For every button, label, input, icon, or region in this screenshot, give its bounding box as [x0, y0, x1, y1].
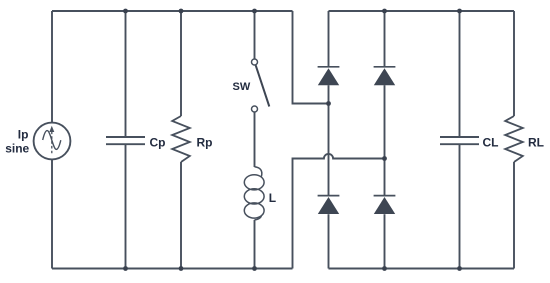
wire CL column bottom	[459, 145, 461, 269]
diode D3 (bridge bottom-left)	[318, 196, 340, 214]
node Cp top	[123, 9, 128, 14]
svg-text:Rp: Rp	[197, 136, 213, 150]
diode D4 (bridge bottom-right)	[374, 196, 396, 214]
current source sine wave	[43, 131, 61, 150]
switch SW blade	[256, 65, 270, 106]
wire CL column top	[459, 11, 461, 136]
resistor RL zigzag	[505, 116, 523, 162]
svg-text:L: L	[269, 191, 276, 205]
wire AC input 1 (top right of left section to bridge)	[293, 11, 329, 104]
node Cp bottom	[123, 266, 128, 271]
node bridge AC1	[326, 101, 331, 106]
node Rp bottom	[179, 266, 184, 271]
wire top rail right section	[329, 10, 515, 12]
svg-text:CL: CL	[483, 135, 499, 149]
node CL bottom	[457, 266, 462, 271]
diode D2 (bridge top-right)	[374, 67, 396, 85]
wire RL column top	[513, 11, 515, 116]
wire SW column top	[254, 11, 256, 59]
wire left column above source	[51, 11, 53, 123]
wire bridge left column middle	[328, 85, 330, 195]
wire top rail left section	[52, 10, 293, 12]
wire Rp column top	[180, 11, 182, 116]
svg-text:Cp: Cp	[150, 135, 166, 149]
capacitor CL plates	[440, 137, 479, 144]
current source Ip circle	[34, 123, 71, 160]
node D4 bottom	[382, 266, 387, 271]
wire bridge right column bottom	[384, 214, 386, 268]
node CL top	[457, 9, 462, 14]
wire left column below source	[51, 160, 53, 269]
diode D1 (bridge top-left)	[318, 67, 340, 85]
wire bridge right column top	[384, 11, 386, 67]
wire RL column bottom	[513, 162, 515, 269]
svg-text:Ip: Ip	[18, 128, 29, 142]
node L bottom	[252, 266, 257, 271]
svg-text:RL: RL	[528, 135, 544, 149]
node Rp top	[179, 9, 184, 14]
switch SW top terminal	[252, 59, 258, 65]
svg-text:SW: SW	[233, 81, 251, 93]
capacitor Cp plates	[106, 137, 145, 144]
wire L to bottom rail	[254, 220, 256, 269]
wire bridge left column bottom	[328, 214, 330, 268]
wire SW to L	[254, 112, 256, 167]
inductor L coil	[244, 167, 264, 220]
wire bottom rail left section	[52, 268, 293, 270]
wire bridge left column top	[328, 11, 330, 67]
node SW top	[252, 9, 257, 14]
wire Cp column bottom	[125, 145, 127, 269]
wire AC input 2 with hop over left bridge leg	[293, 154, 385, 269]
node D2 top	[382, 9, 387, 14]
node bridge AC2	[382, 156, 387, 161]
wire bottom rail right section	[329, 268, 515, 270]
wire Rp column bottom	[180, 162, 182, 269]
wire Cp column top	[125, 11, 127, 136]
switch SW bottom terminal	[252, 106, 258, 112]
svg-text:sine: sine	[5, 141, 29, 155]
current source arrow stem (dashed)	[51, 132, 53, 155]
current source arrowhead	[49, 126, 54, 132]
wire bridge right column middle	[384, 85, 386, 195]
resistor Rp zigzag	[172, 116, 190, 162]
